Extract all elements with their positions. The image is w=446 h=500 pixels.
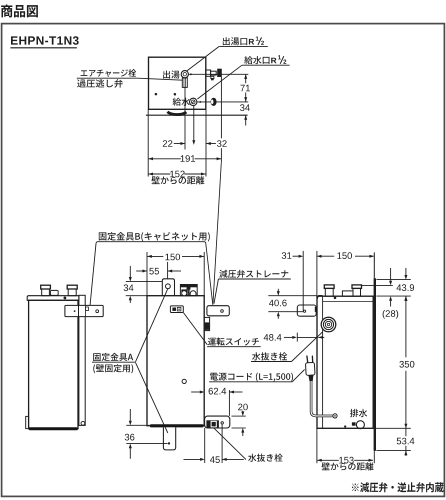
front view: dimension 150 with extension lines — [147, 252, 204, 296]
left view: bottom thick base — [29, 427, 78, 430]
front view: piping connections on top — [180, 285, 197, 296]
side view: dimension 31 — [282, 251, 335, 311]
label エアチャージ栓 / 過圧逃し弁 with leader — [77, 69, 183, 88]
left view: cabinet bracket 固定金具B plate — [65, 305, 103, 316]
front view: dimension 34 — [124, 266, 163, 303]
side view: right extension lines — [362, 280, 411, 451]
top view: extension line from outlet level — [189, 73, 249, 75]
page title 商品図 — [1, 5, 38, 18]
left view: rear bracket strip — [79, 295, 85, 425]
top view: lower side fitting — [211, 98, 217, 106]
side view: power plug and cord — [305, 356, 337, 418]
side view: wall line — [373, 252, 376, 451]
leader to 運転スイッチ label — [183, 313, 207, 345]
top view: label 給水 — [173, 98, 190, 106]
label 固定金具B(キャビネット用) with underline and leaders — [90, 232, 210, 308]
top view: inlet valve fitting — [206, 69, 222, 81]
front view: base bar — [150, 424, 204, 427]
top view: dimension 152 — [148, 171, 205, 178]
top view: water-inlet circle — [190, 98, 202, 105]
side view: dimension (28) — [383, 268, 399, 319]
left view: top pipe stubs and valve — [41, 285, 77, 299]
front view: indicator lamp — [182, 379, 186, 383]
top view: mounting bracket between body and wall — [167, 112, 186, 115]
model number EHPN-T1N3 — [10, 36, 78, 48]
side view: dimension 150 — [337, 252, 374, 259]
front view: dimension 36 — [125, 409, 168, 459]
top view: dimension 22 — [163, 140, 185, 147]
front view: bottom wall bracket 固定金具A — [163, 427, 175, 450]
front view: operation switch 運転スイッチ — [170, 306, 183, 313]
label 減圧弁ストレーナ with leader — [214, 270, 291, 304]
label 固定金具A(壁固定用) with leaders — [92, 289, 168, 433]
label 水抜き栓 (upper) with leader — [251, 332, 323, 362]
side view: dimension 53.4 — [397, 428, 415, 456]
top view: unit body outline — [149, 57, 206, 109]
left view: bottom-left lip — [26, 416, 29, 428]
front view: dimension 45 — [184, 424, 244, 463]
top view: wall line — [146, 114, 248, 116]
label 運転スイッチ — [207, 338, 261, 347]
top view: extension line from inlet level — [197, 101, 248, 103]
leaders to strainer bracket — [206, 163, 222, 305]
front view: unit body outline — [147, 296, 204, 426]
top view: extension verticals — [148, 77, 221, 177]
top view: screw dots — [155, 93, 177, 96]
top view: note 壁からの距離 — [151, 176, 204, 184]
label 水抜き栓 (lower) with leader — [214, 428, 283, 462]
top view: dimension 32 — [206, 140, 227, 147]
top view: hot-water outlet circle — [181, 71, 192, 78]
front view: dimension 20 — [232, 404, 248, 436]
side view: dimension 43.9 — [397, 268, 415, 301]
side view: strainer bracket — [297, 305, 317, 316]
front view: top wall bracket 固定金具A — [162, 279, 174, 296]
side view: note 壁からの距離 — [322, 462, 374, 470]
front view: dimension 55 — [136, 262, 181, 284]
side view: unit body outline — [317, 295, 376, 428]
side view: label 排水 and drain outlet — [344, 409, 367, 429]
front view: dimension 62.4 — [191, 388, 242, 416]
top view: dimension 191 — [148, 155, 221, 162]
front view: strainer bracket on right edge — [207, 306, 229, 316]
side view: dimension 40.6 — [268, 289, 317, 319]
label 出湯口R1/2 with leader — [187, 37, 268, 71]
side view: dimension 350 — [399, 296, 414, 428]
side view: drain cap (knurled) — [321, 317, 336, 332]
front view: drain plug assembly 水抜き栓 — [205, 416, 230, 428]
left view: top lip — [27, 296, 79, 301]
side view: top pipe stubs — [324, 285, 361, 299]
side view: dimension 153 — [317, 429, 374, 464]
footnote ※減圧弁・逆止弁内蔵 — [352, 482, 444, 492]
label 給水口R1/2 with leader — [197, 55, 289, 99]
left view: unit body outline — [29, 300, 78, 428]
top view: air-charge plug pipe — [182, 78, 187, 88]
top view: dimension 34 — [240, 104, 250, 125]
side view: dimension 48.4 — [264, 333, 325, 342]
top view: dimension 71 — [241, 74, 251, 102]
front view: upper drain stub on right edge — [204, 317, 209, 330]
top view: label 出湯 — [163, 71, 179, 79]
label 電源コード (L=1,500) with leader — [209, 370, 305, 382]
